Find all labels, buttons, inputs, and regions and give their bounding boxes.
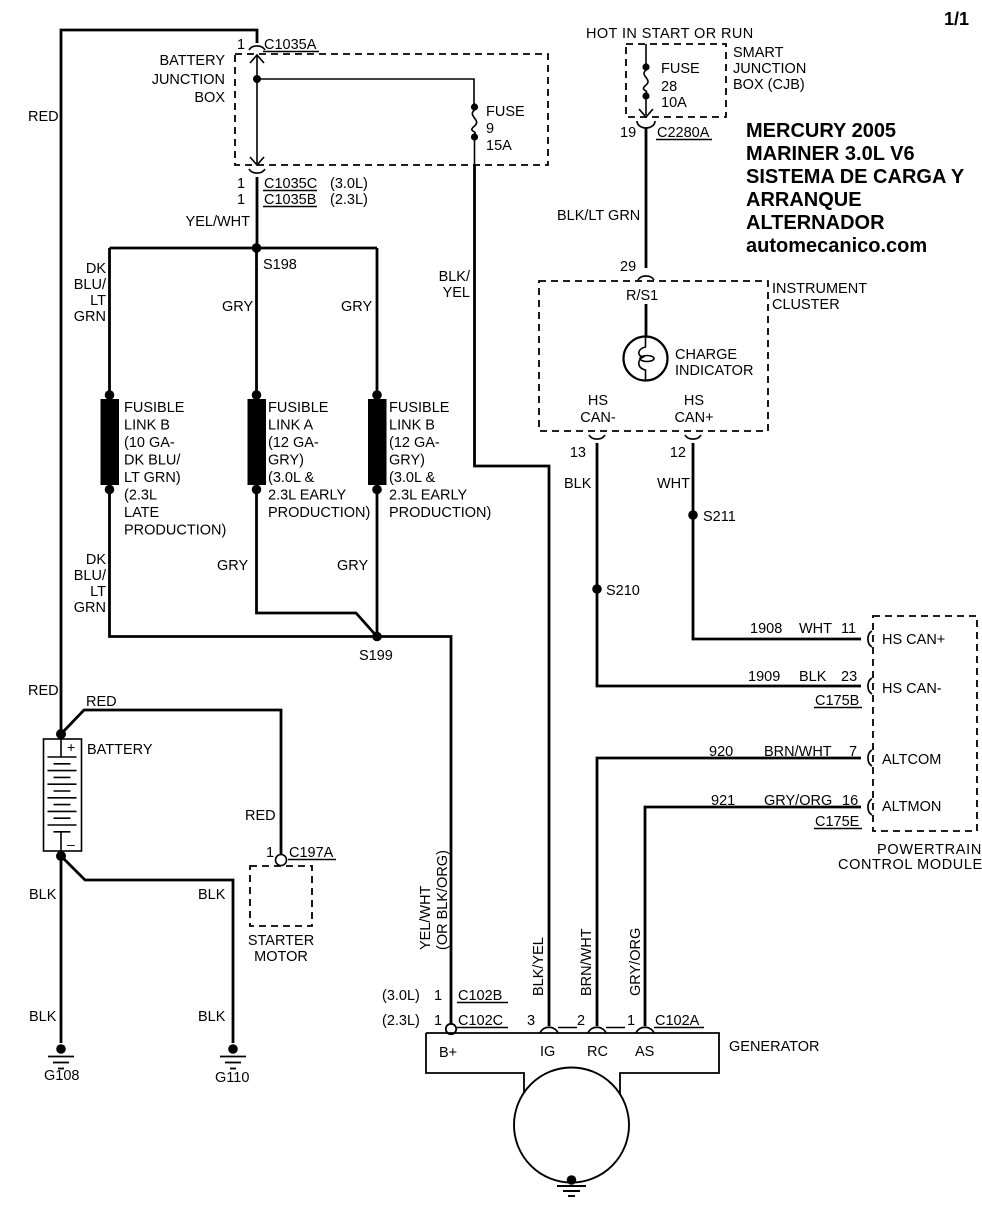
svg-text:ALTCOM: ALTCOM (882, 752, 941, 768)
svg-text:BLU/: BLU/ (74, 568, 107, 584)
battery junction box (dashed) (235, 54, 548, 165)
svg-text:LT: LT (90, 584, 106, 600)
node S199 (372, 632, 382, 642)
svg-text:STARTER: STARTER (248, 933, 314, 949)
svg-text:HOT IN START OR RUN: HOT IN START OR RUN (586, 26, 754, 42)
arrow down out of SJB (639, 109, 653, 117)
fusible link B right (372, 390, 382, 400)
svg-text:13: 13 (570, 445, 586, 461)
svg-text:BATTERY: BATTERY (159, 53, 225, 69)
svg-text:+: + (67, 739, 75, 755)
svg-text:LT GRN): LT GRN) (124, 470, 181, 486)
node S211 (688, 510, 698, 520)
svg-text:HS CAN+: HS CAN+ (882, 632, 945, 648)
arrow down to C1035C (250, 157, 264, 165)
svg-text:S198: S198 (263, 257, 297, 273)
connector PCM pin 23 C175B (868, 678, 872, 694)
connector C2280A (637, 121, 655, 128)
svg-text:28: 28 (661, 79, 677, 95)
svg-text:9: 9 (486, 121, 494, 137)
svg-text:MOTOR: MOTOR (254, 949, 308, 965)
wire thin to fuse 9 (257, 79, 474, 104)
svg-text:LINK B: LINK B (124, 418, 170, 434)
svg-text:(2.3L: (2.3L (124, 488, 157, 504)
svg-text:3: 3 (527, 1013, 535, 1029)
svg-text:AS: AS (635, 1044, 654, 1060)
svg-text:G108: G108 (44, 1068, 79, 1084)
svg-text:S211: S211 (703, 509, 736, 525)
svg-text:BLK: BLK (198, 887, 226, 903)
svg-text:IG: IG (540, 1044, 555, 1060)
svg-text:DK: DK (86, 261, 106, 277)
node battery positive junction (56, 729, 66, 739)
wire BRN/WHT PCM pin7 to generator RC (597, 758, 861, 1026)
svg-text:1: 1 (627, 1013, 635, 1029)
connector cup AS (636, 1027, 654, 1033)
svg-text:MERCURY 2005: MERCURY 2005 (746, 120, 896, 142)
ground G108 (56, 1044, 66, 1054)
svg-text:WHT: WHT (799, 621, 832, 637)
svg-text:BRN/WHT: BRN/WHT (579, 928, 595, 996)
svg-text:CLUSTER: CLUSTER (772, 297, 840, 313)
svg-text:1: 1 (237, 192, 245, 208)
wire RED to starter motor (61, 710, 281, 854)
svg-text:(10 GA-: (10 GA- (124, 435, 175, 451)
ground generator (567, 1175, 577, 1185)
wire BLK battery to G110 (61, 856, 233, 1043)
connector pin 12 (685, 435, 701, 439)
svg-text:BLK: BLK (29, 1009, 57, 1025)
connector cup IG (540, 1027, 558, 1033)
svg-text:LINK A: LINK A (268, 418, 313, 434)
svg-text:C175E: C175E (815, 814, 860, 830)
svg-text:29: 29 (620, 259, 636, 275)
wire BLK pin13 to PCM pin23 (597, 443, 861, 686)
connector C1035A (249, 46, 265, 50)
connector C1035C / C1035B (249, 169, 265, 173)
svg-text:DK: DK (86, 552, 106, 568)
svg-text:2: 2 (577, 1013, 585, 1029)
generator circle body (514, 1068, 629, 1183)
svg-text:INSTRUMENT: INSTRUMENT (772, 281, 867, 297)
wire right branch down (376, 248, 379, 395)
svg-text:ALTMON: ALTMON (882, 799, 941, 815)
wire BLK/LT GRN to instrument cluster (645, 128, 648, 268)
arrow up into C1035A (250, 55, 264, 63)
svg-text:BLK: BLK (198, 1009, 226, 1025)
svg-text:ARRANQUE: ARRANQUE (746, 189, 862, 211)
svg-text:(3.0L &: (3.0L & (389, 470, 436, 486)
svg-text:RED: RED (245, 808, 276, 824)
wire WHT pin12 to PCM pin11 (693, 443, 861, 639)
fuse F9 symbol (471, 103, 478, 110)
svg-text:1: 1 (434, 988, 442, 1004)
svg-text:CONTROL MODULE: CONTROL MODULE (838, 857, 982, 873)
svg-text:RED: RED (28, 109, 59, 125)
svg-text:921: 921 (711, 793, 735, 809)
svg-text:C102B: C102B (458, 988, 502, 1004)
svg-text:LINK B: LINK B (389, 418, 435, 434)
instrument cluster box (dashed) (539, 281, 768, 431)
svg-text:BATTERY: BATTERY (87, 742, 153, 758)
svg-text:15A: 15A (486, 138, 512, 154)
wire BLK/YEL fuse9 to generator IG (475, 164, 550, 1026)
svg-text:BLK: BLK (29, 887, 57, 903)
node in BJB (253, 75, 261, 83)
svg-text:BLK/: BLK/ (439, 269, 471, 285)
svg-text:(OR BLK/ORG): (OR BLK/ORG) (435, 850, 451, 950)
svg-text:PRODUCTION): PRODUCTION) (389, 505, 491, 521)
svg-text:S210: S210 (606, 583, 640, 599)
svg-text:BOX (CJB): BOX (CJB) (733, 77, 805, 93)
svg-text:INDICATOR: INDICATOR (675, 363, 753, 379)
svg-text:GRY/ORG: GRY/ORG (764, 793, 832, 809)
svg-text:–: – (67, 836, 75, 852)
svg-text:GRY: GRY (337, 558, 368, 574)
svg-text:(3.0L): (3.0L) (382, 988, 420, 1004)
svg-text:FUSE: FUSE (486, 104, 525, 120)
svg-text:2.3L EARLY: 2.3L EARLY (389, 488, 468, 504)
node S198 (252, 243, 262, 253)
svg-text:LATE: LATE (124, 505, 160, 521)
svg-text:GRY): GRY) (268, 453, 304, 469)
connector PCM pin 16 C175E (868, 799, 872, 815)
generator box (426, 1033, 719, 1095)
svg-text:GRN: GRN (74, 309, 106, 325)
svg-text:SISTEMA DE CARGA Y: SISTEMA DE CARGA Y (746, 166, 965, 188)
svg-text:S199: S199 (359, 648, 393, 664)
svg-text:automecanico.com: automecanico.com (746, 235, 927, 257)
connector B+ circle (446, 1024, 456, 1034)
svg-text:YEL/WHT: YEL/WHT (186, 214, 251, 230)
svg-text:7: 7 (849, 744, 857, 760)
svg-text:GRY): GRY) (389, 453, 425, 469)
wire YEL/WHT down to S198 (256, 177, 259, 248)
wire left link to S199 (110, 490, 378, 637)
svg-text:FUSE: FUSE (661, 61, 700, 77)
svg-text:BOX: BOX (194, 90, 225, 106)
connector R/S1 (638, 276, 654, 280)
svg-text:C102A: C102A (655, 1013, 700, 1029)
svg-text:10A: 10A (661, 95, 687, 111)
svg-text:BLU/: BLU/ (74, 277, 107, 293)
starter motor box (dashed) (250, 866, 312, 926)
svg-text:PRODUCTION): PRODUCTION) (268, 505, 370, 521)
svg-text:MARINER 3.0L V6: MARINER 3.0L V6 (746, 143, 915, 165)
wire BLK battery to G108 (60, 856, 63, 1043)
svg-text:YEL: YEL (443, 285, 470, 301)
svg-text:1: 1 (237, 37, 245, 53)
svg-text:WHT: WHT (657, 476, 690, 492)
wire S199 to generator B+ (377, 637, 451, 1025)
svg-text:1908: 1908 (750, 621, 782, 637)
svg-text:GRY: GRY (222, 299, 253, 315)
connector PCM pin 7 (868, 750, 872, 766)
svg-text:CAN+: CAN+ (674, 410, 713, 426)
svg-text:POWERTRAIN: POWERTRAIN (877, 842, 982, 858)
wire mid link to S199 (257, 490, 378, 637)
svg-text:YEL/WHT: YEL/WHT (418, 885, 434, 950)
svg-text:C2280A: C2280A (657, 125, 710, 141)
fuse F28 (645, 44, 647, 64)
svg-text:C1035B: C1035B (264, 192, 316, 208)
wire GRY/ORG PCM pin16 to generator AS (645, 807, 861, 1026)
connector pin 13 (589, 435, 605, 439)
svg-text:GRY/ORG: GRY/ORG (628, 928, 644, 996)
svg-text:HS: HS (684, 393, 704, 409)
svg-text:FUSIBLE: FUSIBLE (268, 400, 329, 416)
svg-text:BRN/WHT: BRN/WHT (764, 744, 832, 760)
svg-text:920: 920 (709, 744, 733, 760)
wire RED main left vertical and top horizontal (61, 30, 257, 736)
svg-text:RED: RED (28, 683, 59, 699)
svg-text:CHARGE: CHARGE (675, 347, 737, 363)
powertrain control module box (dashed) (873, 616, 977, 831)
svg-text:CAN-: CAN- (580, 410, 616, 426)
wire R/S1 to charge indicator (645, 304, 648, 337)
svg-text:(12 GA-: (12 GA- (389, 435, 440, 451)
svg-text:2.3L EARLY: 2.3L EARLY (268, 488, 347, 504)
svg-text:FUSIBLE: FUSIBLE (124, 400, 185, 416)
svg-text:GENERATOR: GENERATOR (729, 1039, 820, 1055)
svg-text:BLK: BLK (564, 476, 592, 492)
svg-text:BLK/LT GRN: BLK/LT GRN (557, 208, 640, 224)
wire left branch down (108, 248, 111, 395)
svg-text:JUNCTION: JUNCTION (152, 72, 225, 88)
svg-text:C1035C: C1035C (264, 176, 317, 192)
node battery negative junction (56, 851, 66, 861)
battery BAT (44, 739, 82, 851)
svg-text:RED: RED (86, 694, 117, 710)
svg-text:C102C: C102C (458, 1013, 503, 1029)
svg-text:1909: 1909 (748, 669, 780, 685)
svg-text:GRY: GRY (217, 558, 248, 574)
svg-text:SMART: SMART (733, 45, 784, 61)
svg-text:FUSIBLE: FUSIBLE (389, 400, 450, 416)
node S210 (592, 584, 602, 594)
wire S198 bus (110, 247, 378, 250)
svg-text:1: 1 (266, 845, 274, 861)
connector C197A (276, 855, 287, 866)
svg-text:B+: B+ (439, 1045, 457, 1061)
connector cup RC (588, 1027, 606, 1033)
svg-text:HS CAN-: HS CAN- (882, 681, 942, 697)
svg-text:19: 19 (620, 125, 636, 141)
svg-text:1: 1 (237, 176, 245, 192)
svg-text:GRY: GRY (341, 299, 372, 315)
connector PCM pin 11 (868, 631, 872, 647)
svg-text:(2.3L): (2.3L) (330, 192, 368, 208)
wire mid branch down (255, 248, 258, 395)
fusible link A middle (252, 390, 262, 400)
charge indicator lamp (624, 337, 668, 381)
svg-text:GRN: GRN (74, 600, 106, 616)
svg-text:ALTERNADOR: ALTERNADOR (746, 212, 885, 234)
svg-text:(3.0L): (3.0L) (330, 176, 368, 192)
svg-text:12: 12 (670, 445, 686, 461)
smart junction box (dashed) (626, 44, 726, 117)
svg-text:PRODUCTION): PRODUCTION) (124, 523, 226, 539)
svg-text:BLK: BLK (799, 669, 827, 685)
svg-text:R/S1: R/S1 (626, 288, 658, 304)
svg-text:HS: HS (588, 393, 608, 409)
svg-text:23: 23 (841, 669, 857, 685)
svg-text:C175B: C175B (815, 693, 859, 709)
wire right link to S199 (376, 490, 379, 637)
svg-text:G110: G110 (215, 1070, 249, 1086)
ground G110 (228, 1044, 238, 1054)
svg-text:JUNCTION: JUNCTION (733, 61, 806, 77)
svg-text:C1035A: C1035A (264, 37, 317, 53)
svg-text:(3.0L &: (3.0L & (268, 470, 315, 486)
svg-text:11: 11 (841, 621, 856, 637)
svg-text:C197A: C197A (289, 845, 334, 861)
svg-text:1: 1 (434, 1013, 442, 1029)
fusible link B left (105, 390, 115, 400)
svg-text:1/1: 1/1 (944, 9, 969, 29)
svg-text:16: 16 (842, 793, 858, 809)
svg-text:LT: LT (90, 293, 106, 309)
svg-text:RC: RC (587, 1044, 608, 1060)
wire inside BJB with arrows (256, 56, 258, 164)
svg-text:BLK/YEL: BLK/YEL (531, 937, 547, 996)
svg-text:(2.3L): (2.3L) (382, 1013, 420, 1029)
svg-text:DK BLU/: DK BLU/ (124, 453, 181, 469)
svg-text:(12 GA-: (12 GA- (268, 435, 319, 451)
